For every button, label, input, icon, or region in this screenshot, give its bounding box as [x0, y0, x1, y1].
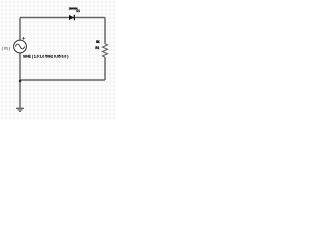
svg-text:( V1 ): ( V1 ) — [2, 46, 10, 50]
svg-text:R1: R1 — [95, 46, 99, 50]
svg-text:SINE ( 1.0 1.0 50Hz 0.05 0.0 ): SINE ( 1.0 1.0 50Hz 0.05 0.0 ) — [23, 55, 68, 59]
svg-text:D1: D1 — [76, 9, 80, 13]
